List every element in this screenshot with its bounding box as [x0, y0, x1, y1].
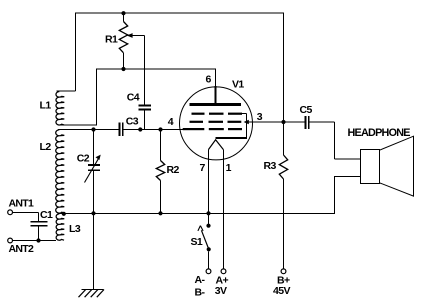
svg-text:C1: C1 [40, 209, 53, 221]
svg-text:A-: A- [195, 274, 206, 286]
svg-text:C2: C2 [77, 153, 90, 165]
svg-text:HEADPHONE: HEADPHONE [348, 127, 411, 139]
svg-text:1: 1 [226, 162, 232, 174]
svg-text:B-: B- [195, 287, 206, 299]
svg-text:6: 6 [206, 74, 212, 86]
svg-text:C3: C3 [126, 116, 139, 128]
svg-text:7: 7 [200, 162, 206, 174]
svg-text:ANT1: ANT1 [9, 198, 34, 210]
svg-text:S1: S1 [191, 236, 203, 248]
svg-text:L1: L1 [40, 100, 52, 112]
svg-text:L3: L3 [69, 223, 81, 235]
svg-text:V1: V1 [232, 79, 244, 91]
svg-text:R3: R3 [264, 160, 277, 172]
svg-text:R2: R2 [167, 164, 180, 176]
svg-text:ANT2: ANT2 [9, 243, 34, 255]
svg-text:C5: C5 [300, 104, 313, 116]
svg-text:R1: R1 [105, 34, 118, 46]
svg-text:45V: 45V [273, 285, 290, 297]
svg-text:3: 3 [257, 111, 263, 123]
svg-text:3V: 3V [215, 285, 227, 297]
svg-text:C4: C4 [127, 91, 140, 103]
svg-text:4: 4 [168, 116, 174, 128]
svg-text:L2: L2 [40, 141, 52, 153]
